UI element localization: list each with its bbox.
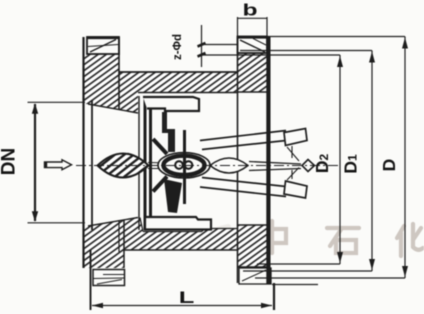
svg-text:DN: DN (0, 148, 20, 175)
svg-text:D: D (379, 159, 399, 172)
svg-text:z-Φd: z-Φd (172, 34, 184, 60)
svg-text:b: b (242, 1, 257, 19)
svg-text:L: L (179, 287, 195, 307)
